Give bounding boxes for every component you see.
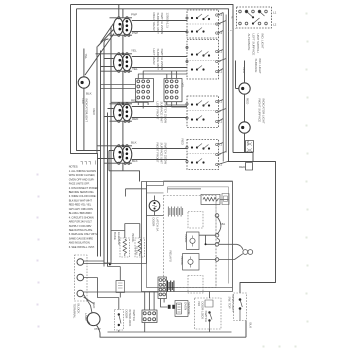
svg-text:DOOR: DOOR [152, 218, 156, 228]
node terminal T1 [215, 214, 219, 218]
wire terminal arcs [217, 216, 243, 259]
connector J4 column [158, 277, 167, 299]
svg-text:RIGHT SURFACE: RIGHT SURFACE [258, 99, 262, 123]
svg-text:SURFACE: SURFACE [254, 59, 258, 73]
switch S3 left front surface unit [114, 104, 132, 121]
wire S2 left stubs [101, 59, 114, 67]
wire box internal rows [187, 24, 219, 154]
svg-text:WITH DOOR CLOSED,: WITH DOOR CLOSED, [69, 173, 96, 177]
relay K3 broil [183, 254, 200, 271]
wire terminal N out [84, 278, 119, 310]
svg-text:YEL: YEL [84, 54, 88, 60]
wire L2 top bus [77, 9, 229, 162]
svg-text:3. WIRE COLOR CODE:: 3. WIRE COLOR CODE: [69, 194, 97, 198]
svg-text:SWITCH 2350W: SWITCH 2350W [164, 143, 168, 165]
box lamp receptacle [116, 281, 125, 293]
node terminal N [77, 274, 84, 281]
svg-text:ELEMENT: ELEMENT [117, 232, 121, 246]
wire mid bus d [110, 27, 112, 261]
svg-text:BROIL: BROIL [180, 257, 184, 266]
svg-text:INTERLOCK: INTERLOCK [128, 310, 132, 327]
svg-text:RED: RED [92, 302, 96, 309]
svg-text:SWITCH: SWITCH [132, 310, 136, 322]
svg-text:BLK: BLK [249, 323, 253, 329]
motor M1 door lock [149, 201, 160, 212]
wire left bus inner [77, 9, 101, 257]
svg-text:GRY-GRY ORN-ORN: GRY-GRY ORN-ORN [69, 207, 93, 211]
svg-text:L2: L2 [273, 23, 277, 27]
lamp DS1 hot indicator light [78, 77, 89, 88]
svg-text:INDICATOR LIGHT: INDICATOR LIGHT [262, 99, 266, 124]
wire mid vertical dashed [215, 196, 217, 288]
svg-text:5. REPLACE ONLY WITH: 5. REPLACE ONLY WITH [69, 232, 98, 236]
wire lamp out [97, 321, 247, 338]
svg-text:BROIL: BROIL [131, 234, 135, 243]
svg-text:ARE FOR 240 VOLT: ARE FOR 240 VOLT [69, 220, 93, 224]
svg-text:8A: 8A [222, 222, 226, 226]
node junction dot [205, 243, 207, 245]
svg-text:NO: NO [197, 302, 201, 307]
switch oven light [234, 293, 247, 321]
svg-text:YEL: YEL [131, 49, 137, 53]
resistor broil element [135, 238, 145, 257]
svg-text:RED: RED [239, 165, 246, 169]
wire lamp top lead [83, 49, 85, 151]
svg-text:LEFT REAR: LEFT REAR [152, 49, 156, 66]
wire DS3 bottom lead [244, 133, 246, 152]
svg-text:L1: L1 [219, 13, 222, 17]
svg-text:SWITCH 2350W: SWITCH 2350W [160, 49, 164, 71]
wire oven light feed [228, 162, 276, 294]
node terminal L2 [77, 290, 84, 297]
wire S1 top lead [119, 5, 123, 18]
wire door interlock bottom [108, 330, 232, 332]
wire right col a [222, 13, 224, 162]
svg-text:SUPPLY. FOR 208V: SUPPLY. FOR 208V [69, 224, 92, 228]
svg-text:YEL: YEL [181, 83, 185, 89]
relay K1 outline dashed [188, 212, 203, 229]
svg-text:ELEM.: ELEM. [135, 247, 139, 256]
svg-text:IND. LIGHT: IND. LIGHT [261, 34, 265, 49]
svg-text:IND. LIGHT: IND. LIGHT [258, 59, 262, 74]
wire mid bus c [107, 113, 109, 267]
svg-text:DOOR: DOOR [125, 310, 129, 320]
wire terminal L2 out [84, 292, 158, 313]
svg-text:DOOR LOCK: DOOR LOCK [201, 302, 205, 320]
lamp DS2 surface indicator [239, 83, 250, 94]
node chain junction dots [122, 53, 124, 147]
svg-text:RED: RED [245, 98, 249, 105]
svg-text:P: P [219, 110, 221, 114]
node small box B [246, 163, 253, 171]
svg-text:SAME GAUGE WIRE: SAME GAUGE WIRE [69, 236, 94, 240]
wire right col b [225, 15, 227, 153]
wire grid feeds bottom [111, 102, 187, 109]
svg-text:RED: RED [181, 139, 185, 146]
svg-text:LEFT FRONT: LEFT FRONT [156, 102, 160, 120]
node small box A [246, 141, 254, 153]
box U1 inner [147, 181, 233, 288]
box relays dashed [164, 196, 217, 288]
wire mid bus a [100, 51, 102, 151]
svg-text:LEFT SURFACE: LEFT SURFACE [252, 34, 256, 56]
wire S1 to box1 [132, 21, 187, 32]
wire grid feeds top [101, 71, 188, 109]
wire bottom links [104, 260, 111, 267]
svg-text:BAKE: BAKE [113, 232, 117, 240]
svg-text:6. SEE INSTALL. INST.: 6. SEE INSTALL. INST. [69, 245, 95, 249]
fuse F1 [201, 194, 220, 204]
svg-text:SEE RATING PLATE.: SEE RATING PLATE. [69, 228, 93, 232]
switch block SW2 [187, 40, 226, 80]
switch S2 left rear surface unit [114, 54, 132, 71]
svg-text:BEFORE SERVICING.: BEFORE SERVICING. [69, 190, 95, 194]
wire J4 tail [161, 299, 168, 308]
wire bus corner right [233, 153, 253, 162]
switch S4 right front surface unit [114, 146, 132, 163]
lamp DS3 right surface indicator [239, 122, 250, 133]
svg-text:HOT: HOT [81, 99, 85, 105]
svg-text:SW. TOP: SW. TOP [228, 297, 232, 309]
note text [69, 165, 99, 249]
wire S4 left stubs [98, 151, 114, 159]
wire mid bus e [96, 47, 98, 154]
svg-text:RELAYS: RELAYS [169, 251, 173, 262]
note symbols row [81, 161, 96, 165]
wire grid1 left feed [101, 85, 136, 89]
svg-text:SWITCH: SWITCH [204, 311, 208, 323]
svg-text:LAMP: LAMP [84, 313, 88, 321]
box U1 third border [168, 187, 229, 284]
svg-text:SURFACE UNIT: SURFACE UNIT [160, 143, 164, 165]
box U1 electronic oven control outer [142, 182, 233, 292]
svg-text:RIGHT REAR: RIGHT REAR [152, 13, 156, 32]
wire left bus outer [71, 5, 98, 257]
connector comb dark [168, 281, 174, 292]
svg-text:SWITCH 2350W: SWITCH 2350W [160, 13, 164, 35]
switch block SW3 [187, 96, 226, 128]
terminal block TB1 dashed [75, 255, 88, 301]
svg-text:UNIT SWITCH: UNIT SWITCH [256, 34, 260, 53]
svg-text:SURFACE UNIT: SURFACE UNIT [160, 102, 164, 124]
svg-text:P: P [219, 153, 221, 157]
wire M1 leads [147, 196, 164, 216]
svg-text:SURFACE UNIT: SURFACE UNIT [156, 13, 160, 35]
svg-text:P: P [219, 22, 221, 26]
svg-text:4. CIRCUITS SHOWN: 4. CIRCUITS SHOWN [69, 215, 94, 219]
switch SW5 alternate left surface unit [237, 7, 272, 28]
wire S3 left stubs [104, 109, 114, 117]
wire door lock leads [209, 292, 211, 333]
svg-text:FACE UNITS OFF.: FACE UNITS OFF. [69, 182, 90, 186]
wire detail leader [229, 28, 237, 32]
wire J3 feeds [145, 292, 154, 333]
wire S3 to box3 [132, 107, 187, 118]
svg-text:NOTES:: NOTES: [69, 165, 79, 169]
lamp DS4 oven lamp [87, 313, 100, 326]
wire L1 top bus [71, 5, 234, 153]
svg-text:P: P [219, 60, 221, 64]
svg-text:1250W (L1): 1250W (L1) [166, 13, 170, 28]
svg-text:BLOCK: BLOCK [77, 304, 81, 314]
wire mid bus b [104, 39, 109, 263]
svg-text:TERMINAL: TERMINAL [73, 304, 77, 319]
svg-text:BLK-BLK WHT-WHT: BLK-BLK WHT-WHT [69, 199, 93, 203]
scan speckles right margin [263, 13, 309, 348]
relay K4 outline dashed [188, 276, 203, 294]
svg-text:LIGHT: LIGHT [85, 114, 89, 123]
svg-text:BAKE: BAKE [184, 235, 188, 243]
resistor bake element [120, 238, 130, 257]
node double circle [243, 250, 248, 255]
svg-text:SURFACE UNIT: SURFACE UNIT [156, 49, 160, 71]
svg-text:AND INSULATION.: AND INSULATION. [69, 241, 91, 245]
svg-text:RED: RED [92, 109, 96, 116]
wire S4 bottom lead [109, 151, 140, 182]
svg-text:2. DISCONNECT POWER: 2. DISCONNECT POWER [69, 186, 99, 190]
svg-text:OVEN OFF AND SUR-: OVEN OFF AND SUR- [69, 177, 95, 181]
wire terminal L1 out [84, 182, 147, 264]
svg-text:ALTERNATE: ALTERNATE [247, 34, 251, 51]
svg-text:P: P [232, 16, 234, 20]
svg-text:RIGHT FRONT: RIGHT FRONT [156, 143, 160, 163]
svg-text:BLK: BLK [86, 92, 92, 96]
switch S1 right rear surface unit [114, 18, 132, 35]
wire S2 to box2 [132, 57, 187, 68]
svg-text:L2: L2 [219, 31, 222, 35]
svg-text:LATCH 3A: LATCH 3A [156, 218, 160, 232]
wire receptacle leads [108, 267, 121, 298]
node junction dot bottom [109, 263, 111, 265]
svg-text:BLU-BLU BRN-BRN: BLU-BLU BRN-BRN [69, 211, 92, 215]
connector J2 [164, 79, 182, 102]
switch block SW1 [187, 10, 226, 38]
connector J3 bottom grid [142, 310, 157, 323]
wire S1 fan slants [85, 24, 114, 76]
connector pin header P1 [168, 207, 182, 217]
svg-text:OVEN: OVEN [184, 302, 188, 310]
svg-text:BLK: BLK [242, 68, 246, 74]
node terminal T4 [215, 258, 219, 262]
svg-text:1. ALL WIRING SHOWN: 1. ALL WIRING SHOWN [69, 169, 97, 173]
svg-text:BLK: BLK [131, 141, 137, 145]
relay K2 bake [187, 232, 200, 250]
svg-text:L2: L2 [219, 70, 222, 74]
scan speckles left margin [37, 174, 40, 328]
wire DS2 left stub [236, 61, 239, 89]
connector comb pair [168, 305, 171, 309]
switch door interlock [114, 310, 123, 331]
switch door lock [195, 298, 222, 329]
node terminal L1 [77, 259, 84, 266]
svg-text:RED-RED YEL-YEL: RED-RED YEL-YEL [69, 203, 92, 207]
switch block SW4 [187, 140, 228, 170]
wire relay outputs [199, 235, 215, 259]
svg-text:SENSOR: SENSOR [187, 302, 191, 315]
node terminal T2 [215, 233, 219, 237]
label L1 L2 pins SW1 [219, 13, 222, 167]
box aux right [222, 194, 229, 205]
svg-text:L2: L2 [219, 120, 222, 124]
node terminal T3 [215, 243, 219, 247]
box oven sensor [175, 301, 188, 317]
wire S4 to box4 [132, 149, 187, 160]
connector J1 [136, 79, 154, 102]
svg-text:L1: L1 [273, 11, 277, 15]
svg-text:PNP: PNP [131, 13, 137, 17]
wire element feeds [111, 189, 147, 238]
wire pair chain links [122, 35, 124, 170]
wire DS2 leads [244, 61, 246, 122]
